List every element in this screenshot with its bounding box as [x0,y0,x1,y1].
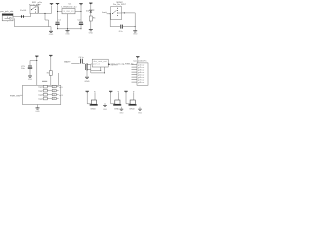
svg-text:GND: GND [129,109,135,111]
transistor cell 2 [115,100,120,104]
wire to C5 [30,60,37,62]
svg-text:GND: GND [89,33,94,35]
svg-text:GND: GND [85,81,91,83]
svg-text:p9v: p9v [38,2,43,4]
svg-text:p1sv: p1sv [138,64,145,66]
svg-text:io3: io3 [59,95,63,97]
ground GND block [36,107,40,110]
svg-text:p2sv: p2sv [138,67,145,69]
block row 3 pin box [52,93,56,95]
wire to regulator input [58,11,63,13]
block row 1 pin box [52,85,56,87]
svg-text:F1 m500: F1 m500 [20,10,26,12]
block row 2 wire [47,90,52,92]
svg-text:GND: GND [138,112,143,114]
output arrow [108,63,110,65]
cell 2 left wire [110,93,112,104]
junction reg input [57,11,58,12]
block row 4 pin box [52,97,56,99]
svg-text:GND: GND [49,34,54,36]
svg-text:R1: R1 [93,18,96,20]
block row 2 pin box [52,89,56,91]
wire SW1 output [37,6,40,8]
svg-text:C4 10n: C4 10n [119,31,123,33]
svg-text:p8sv: p8sv [138,82,145,84]
connector J2 pin 1 [132,64,138,66]
svg-text:o4: o4 [53,98,55,100]
block row 1 stub [56,86,58,88]
wire SW2 bottom [110,26,120,28]
wire output to C2 [80,12,82,22]
svg-text:sig2: sig2 [38,91,43,93]
svg-text:o3: o3 [53,94,55,96]
stub near R2 [42,80,47,82]
svg-text:pwm_in: pwm_in [93,64,100,66]
ground GND sw2 [133,29,137,32]
wire SW2 output [122,12,136,14]
wire VIN down [57,5,59,21]
connector J2 pin 4 [132,71,138,73]
connector J2 pin 2 [132,66,138,68]
block row 4 stub [56,98,58,100]
connector J2 pin 6 [132,76,138,78]
feedback wire B [104,67,106,73]
wire jack negative rail [14,26,51,28]
wire jack to fuse [13,16,21,18]
transistor Q1 [84,64,87,70]
svg-text:GND: GND [65,34,70,36]
cell 1 power flag [86,90,89,93]
svg-text:VI_GND_VO: VI_GND_VO [64,11,75,13]
wire to LED [90,5,92,10]
svg-text:PWR_SW: PWR_SW [10,95,20,97]
power flag +5V servo [136,55,139,58]
svg-text:io1: io1 [59,87,63,89]
cell 2 power flag [109,90,112,93]
svg-text:Con_serv8_Pin: Con_serv8_Pin [133,60,146,63]
ground rail [58,28,82,30]
regulator ground pin [67,14,69,29]
svg-text:GND: GND [133,34,138,36]
ground extra b [120,107,122,109]
connector J1 barrel jack [2,14,13,21]
svg-text:sig1: sig1 [38,87,43,89]
ground GND jack [49,30,53,33]
svg-text:GND: GND [90,109,96,111]
cell 2 right wire [118,92,120,100]
power flag +5V blk B [49,54,52,57]
svg-text:GND: GND [103,109,108,111]
junction SW2 gnd [135,26,136,27]
fuse F1 [21,15,22,17]
junction cap C5 [36,60,37,61]
ground extra a [104,103,106,105]
connector J2 pin 8 [132,81,138,83]
wire pin stub [20,94,23,96]
cell 1 right wire [94,92,96,100]
svg-text:C6 1u: C6 1u [79,57,84,59]
wire C1 to rail [57,25,59,29]
svg-text:o2: o2 [53,90,55,92]
block row 1 wire [47,86,52,88]
LED D1 [89,9,92,12]
cell 3 power flag [124,90,127,93]
svg-text:in: in [38,4,41,6]
capacitor C4 series [119,25,122,29]
svg-text:GND: GND [28,79,33,81]
svg-text:p3sv: p3sv [138,69,145,71]
junction SW1 out [44,13,45,14]
wire batt [71,63,80,65]
svg-text:R2: R2 [47,73,49,75]
junction reg output [80,11,81,12]
block row 3 resistor [43,93,47,96]
feedback wire A [100,67,102,70]
wire c6 to transistor [83,63,86,65]
cell 3 left wire [125,93,127,104]
svg-text:p7sv: p7sv [138,79,145,81]
driver connector box [92,59,108,67]
wire vertical C into block [57,73,59,85]
junction SW2 out [124,12,125,13]
svg-text:C1: C1 [59,19,61,21]
svg-text:U1: U1 [69,3,72,5]
block row 1 resistor [43,85,47,88]
connector J2 pin 3 [132,69,138,71]
block row 4 resistor [43,97,47,100]
power flag VIN B [56,2,59,5]
wire branch down [44,13,46,20]
wire +5V down B [50,57,52,71]
svg-text:L7805CV_5v: L7805CV_5v [62,7,77,9]
regulator U1 L7805 [62,9,75,14]
svg-text:GND: GND [119,112,124,114]
svg-text:GND: GND [35,111,40,113]
block row 2 resistor [43,89,47,92]
ground GND led [89,28,93,31]
wire to VIN flag [51,6,53,13]
block row 2 stub [56,90,58,92]
wire resistor to ground [90,21,92,29]
power flag +5V led [89,2,92,5]
svg-text:sig4: sig4 [38,98,43,100]
connector J2 pin 7 [132,79,138,81]
svg-text:10u: 10u [21,68,25,70]
wire servo flag [137,59,139,63]
block row 4 wire [47,98,52,100]
ground extra c [139,107,141,109]
junction SW2 left [110,13,111,14]
wire LED to resistor [90,13,92,17]
transistor cell 1 [91,100,96,104]
wire Q1 source down [86,71,88,77]
cell 3 right wire [133,92,135,100]
block row 3 stub [56,94,58,96]
power flag VIN A [50,2,53,5]
wire regulator output [75,11,81,13]
switch SW2 [111,7,122,20]
block row 3 wire [47,94,52,96]
svg-text:sig3: sig3 [38,95,43,97]
ground Q1 [85,76,89,79]
block outline bottom-left [22,85,60,104]
capacitor C2 output [79,21,83,24]
wire jack negative down [13,18,15,26]
svg-text:D1: D1 [86,11,89,13]
capacitor C1 input [56,21,60,24]
transistor cell 3 [130,100,135,104]
ground GND regulator [66,29,70,32]
power flag +5V blk A [35,55,38,58]
connector J2 pin 5 [132,74,138,76]
switch SW1 [30,6,38,14]
svg-text:batt: batt [102,11,107,14]
svg-text:pwr_jack_slot: pwr_jack_slot [0,10,14,13]
wire Q1 drain up join [90,65,92,73]
cell 1 left wire [86,93,88,104]
svg-text:servo_conn_sig_PWM_drv: servo_conn_sig_PWM_drv [111,63,134,65]
wire to SW2 [107,13,111,15]
svg-text:C2: C2 [78,19,81,21]
ground GND c5 [28,75,32,78]
svg-text:o1: o1 [53,86,55,88]
svg-text:p5sv: p5sv [138,74,145,76]
svg-text:p4sv: p4sv [138,72,145,74]
capacitor C5 [28,65,32,68]
wire fuse to switch [24,16,31,18]
power flag +5V out [79,2,82,5]
svg-text:p6sv: p6sv [138,77,145,79]
resistor R1 [89,16,92,21]
resistor R2 [49,71,52,76]
wire +5V down to block [36,58,38,85]
svg-text:Pwr_Sw_SPDT: Pwr_Sw_SPDT [113,3,126,6]
connector J2 body [137,63,148,85]
block ground [37,105,39,108]
svg-text:GND: GND [114,109,120,111]
